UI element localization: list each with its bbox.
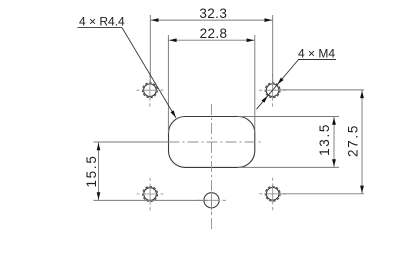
dimension 13.5 extension line bottom xyxy=(238,166,339,168)
dimension 22.8 arrow left xyxy=(169,38,177,42)
svg-text:15.5: 15.5 xyxy=(84,154,99,187)
svg-text:4 × R4.4: 4 × R4.4 xyxy=(79,15,125,29)
dimension 15.5 arrow bottom xyxy=(97,192,101,200)
hole bottom-center xyxy=(197,186,226,215)
dimension 32.3 extension line right xyxy=(272,15,274,83)
label 4xR4.4 leader line xyxy=(122,28,176,118)
dimension 27.5 extension line bottom xyxy=(281,193,365,195)
label 4xR4.4 leader arrow xyxy=(171,110,176,117)
dimension 27.5 line xyxy=(361,90,363,194)
dimension 22.8 extension line right xyxy=(254,35,256,133)
dimension 13.5 arrow bottom xyxy=(332,159,336,167)
hole top-left (M4) xyxy=(136,74,163,107)
svg-text:27.5: 27.5 xyxy=(345,124,360,157)
panel cutout outline (rounded rectangle) xyxy=(169,117,255,168)
dimension 27.5 arrow bottom xyxy=(360,186,364,194)
dimension 15.5 line xyxy=(98,142,100,200)
label 4xM4 arrow at hole lower edge xyxy=(262,96,268,103)
dimension 32.3 extension line left xyxy=(149,15,151,83)
dimension 32.3 line xyxy=(150,19,272,21)
vertical centerline xyxy=(211,104,213,231)
dimension 27.5 extension line top xyxy=(280,89,364,91)
dimension 13.5 arrow top xyxy=(332,117,336,125)
dimension 15.5 extension line top xyxy=(94,141,169,143)
label 4xM4 underline xyxy=(298,59,336,61)
dimension 32.3 arrow right xyxy=(265,18,273,22)
dimension 22.8 line xyxy=(168,39,254,41)
hole top-right (M4) xyxy=(259,74,286,107)
dimension 13.5 extension line top xyxy=(238,116,339,118)
hole bottom-right (M4) xyxy=(259,178,286,211)
svg-text:13.5: 13.5 xyxy=(317,123,332,156)
dimension 15.5 arrow top xyxy=(97,143,101,151)
svg-text:32.3: 32.3 xyxy=(199,6,227,21)
svg-text:4 × M4: 4 × M4 xyxy=(298,47,335,61)
dimension 27.5 arrow top xyxy=(360,91,364,99)
horizontal centerline of cutout xyxy=(169,141,263,143)
label 4xR4.4 underline xyxy=(78,27,123,29)
label 4xM4 arrow at hole upper edge xyxy=(277,78,283,85)
svg-text:22.8: 22.8 xyxy=(200,26,228,41)
dimension 22.8 extension line left xyxy=(167,35,169,133)
dimension 32.3 arrow left xyxy=(151,18,159,22)
dimension 22.8 arrow right xyxy=(247,38,255,42)
dimension 13.5 line xyxy=(333,117,335,168)
hole bottom-left (M4) xyxy=(137,178,164,211)
dimension 15.5 extension line bottom xyxy=(94,199,208,201)
label 4xM4 leader line xyxy=(257,60,299,110)
